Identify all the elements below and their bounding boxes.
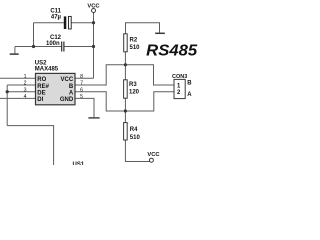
svg-text:47µ: 47µ	[51, 14, 62, 20]
ground symbol left (C12)	[10, 53, 19, 55]
svg-text:8: 8	[80, 74, 83, 80]
VCC symbol top circle	[92, 9, 96, 13]
svg-text:MAX485: MAX485	[35, 66, 59, 72]
svg-text:1: 1	[24, 74, 27, 80]
svg-text:DE: DE	[37, 91, 45, 97]
svg-text:US1: US1	[73, 162, 85, 165]
junction A net / R3 R4	[124, 109, 127, 112]
wire C11 net left	[34, 22, 64, 24]
svg-text:7: 7	[80, 81, 83, 87]
svg-text:5: 5	[80, 94, 83, 100]
capacitor C12 plate left	[61, 42, 63, 52]
VCC symbol bottom circle	[149, 158, 153, 162]
capacitor C11 plate right (polarized)	[69, 16, 72, 29]
ground symbol right of R2	[155, 32, 165, 34]
svg-text:2: 2	[24, 81, 27, 87]
svg-text:B: B	[187, 81, 192, 87]
wire pin4 DI	[0, 97, 36, 99]
svg-text:RO: RO	[37, 77, 46, 83]
svg-text:A: A	[69, 91, 74, 97]
capacitor C12 plate right	[63, 42, 65, 52]
wire C11 net right	[71, 22, 93, 24]
ground symbol below pin5	[88, 117, 99, 119]
capacitor C11 plate left	[64, 16, 67, 29]
svg-text:100n: 100n	[46, 41, 60, 47]
wire R3 top	[124, 65, 126, 80]
wire pin3 DE	[7, 91, 35, 93]
wire pin8 VCC	[75, 77, 93, 79]
svg-text:A: A	[187, 92, 192, 98]
svg-text:RE#: RE#	[37, 84, 49, 90]
svg-text:VCC: VCC	[87, 4, 100, 10]
svg-text:VCC: VCC	[147, 152, 160, 158]
junction RE-DE tie	[6, 90, 9, 93]
wire pin6 A to net	[75, 92, 174, 111]
resistor R2 body	[124, 34, 128, 52]
svg-text:R4: R4	[130, 127, 138, 133]
wire VCC column down to pin8	[93, 23, 95, 79]
wire tie RE-DE vertical	[6, 85, 8, 126]
wire R2 top to GND bar	[126, 23, 160, 34]
junction B net / R2 R3	[124, 63, 127, 66]
wire VCC stub top	[93, 13, 95, 23]
wire ground stub left	[14, 47, 16, 54]
wire pin7 B to net	[75, 65, 174, 85]
resistor R3 body	[124, 80, 128, 98]
svg-text:GND: GND	[60, 97, 74, 103]
wire pin1 RO	[0, 77, 36, 79]
svg-text:CON3: CON3	[172, 74, 187, 80]
svg-text:VCC: VCC	[61, 77, 74, 83]
wire DI net down to US1	[7, 126, 53, 165]
wire left drop C11 to C12	[33, 23, 35, 47]
wire R3 bottom	[124, 98, 126, 111]
junction VCC/C11	[92, 21, 95, 24]
wire pin5 GND to ground	[75, 98, 94, 117]
svg-text:3: 3	[24, 87, 27, 93]
svg-text:C12: C12	[50, 35, 62, 41]
svg-text:DI: DI	[37, 97, 43, 103]
svg-text:6: 6	[80, 87, 83, 93]
wire R4 top	[124, 111, 126, 123]
svg-text:4: 4	[24, 94, 27, 100]
IC US2 MAX485 body	[36, 73, 76, 104]
wire R2 bottom	[124, 52, 126, 65]
svg-text:B: B	[69, 84, 74, 90]
connector CON3 body	[174, 79, 185, 98]
svg-text:R3: R3	[129, 82, 137, 88]
svg-text:R2: R2	[130, 37, 138, 43]
wire C12 net left	[15, 46, 61, 48]
junction VCC/C12	[92, 45, 95, 48]
svg-text:510: 510	[130, 45, 141, 51]
svg-text:120: 120	[129, 89, 140, 95]
svg-text:510: 510	[130, 135, 141, 141]
wire R4 bottom to VCC	[125, 140, 149, 162]
svg-text:RS485: RS485	[146, 43, 197, 60]
junction C12/left drop	[32, 45, 35, 48]
wire C12 net right	[64, 46, 93, 48]
resistor R4 body	[124, 123, 128, 140]
wire pin2 RE#	[7, 84, 35, 86]
